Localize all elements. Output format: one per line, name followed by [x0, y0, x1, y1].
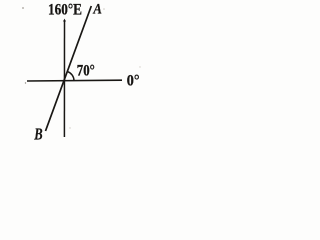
- svg-text:A: A: [93, 2, 102, 18]
- angle arc 70°: [68, 72, 74, 81]
- svg-text:70°: 70°: [77, 63, 95, 80]
- line A-B through origin: [46, 6, 92, 131]
- svg-text:B: B: [33, 124, 42, 141]
- svg-text:160°E: 160°E: [48, 2, 82, 19]
- speck noise: [22, 7, 24, 9]
- vertical axis (160°E direction): [63, 20, 65, 137]
- arrowhead top of vertical axis: [63, 19, 66, 22]
- horizontal axis (0° direction): [27, 79, 122, 82]
- svg-text:0°: 0°: [127, 73, 140, 90]
